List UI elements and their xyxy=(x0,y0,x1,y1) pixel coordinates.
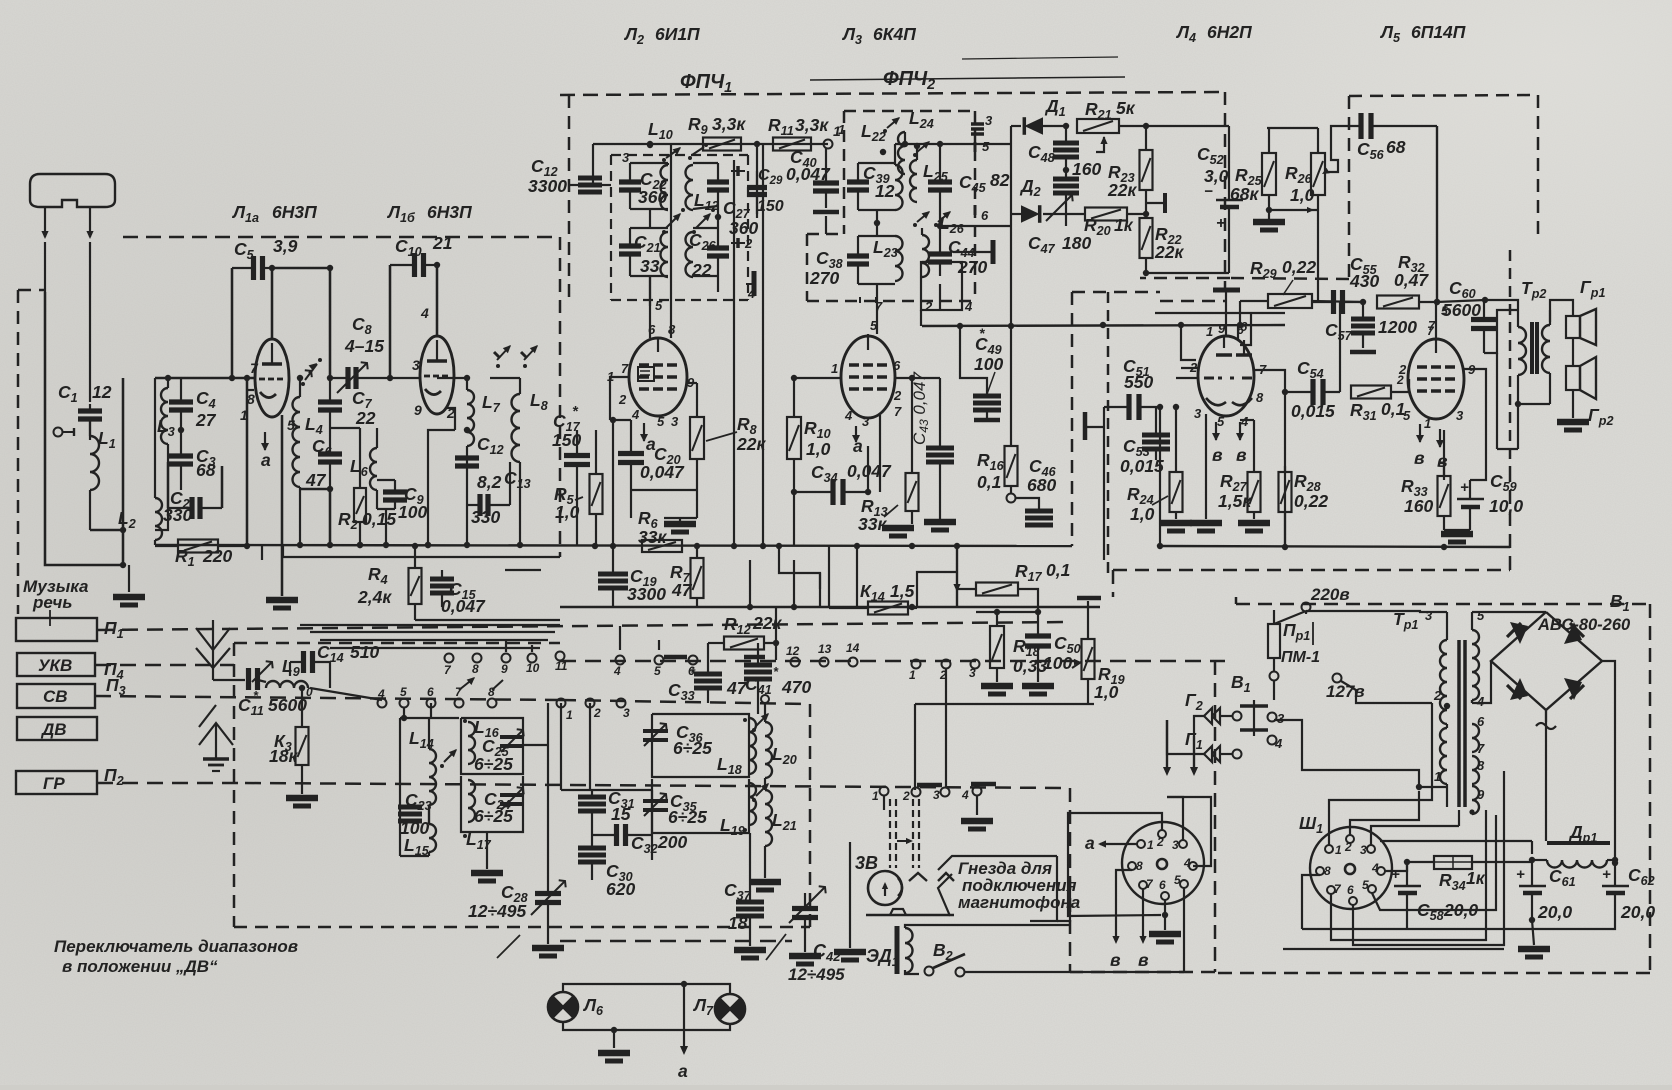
svg-text:4: 4 xyxy=(844,408,853,423)
wire plate Л1а up xyxy=(271,268,274,339)
svg-text:5: 5 xyxy=(655,298,663,313)
svg-text:620: 620 xyxy=(606,879,635,899)
svg-text:СВ: СВ xyxy=(43,687,68,706)
contact row 12-14 xyxy=(791,658,800,667)
svg-text:3: 3 xyxy=(1194,406,1202,421)
svg-text:6: 6 xyxy=(893,358,901,373)
wire Л3 pin7 down xyxy=(879,415,881,492)
wire row1 links xyxy=(430,703,432,718)
svg-text:270: 270 xyxy=(809,268,839,288)
wire Л4 grid2 xyxy=(1181,367,1198,369)
wire C22-C21 xyxy=(649,209,651,228)
svg-text:160: 160 xyxy=(1072,159,1101,179)
Тр1 secondary HV xyxy=(1472,630,1479,700)
svg-text:3300: 3300 xyxy=(627,584,666,604)
wire L7 bottom xyxy=(466,505,468,545)
wire 3В lamp drop xyxy=(849,842,851,948)
grid box Л2 xyxy=(638,367,654,381)
switch arrows L18 xyxy=(756,714,768,726)
svg-text:5: 5 xyxy=(982,139,990,154)
wire L20 top contact xyxy=(761,695,769,703)
trimmer core bar xyxy=(752,271,757,296)
wire lamp loop xyxy=(563,984,730,994)
wire R18 top xyxy=(976,611,1038,613)
wiper arrow R21 xyxy=(1096,137,1104,152)
svg-text:2: 2 xyxy=(593,706,601,720)
wire L3 bottom xyxy=(155,508,168,530)
bar contact4 ground xyxy=(971,782,996,787)
svg-text:3: 3 xyxy=(412,357,420,373)
wire ФПЧ2 out bottom xyxy=(920,310,922,326)
dashed box band switch xyxy=(234,642,560,645)
svg-text:а: а xyxy=(1085,833,1095,853)
contact row 1-3 right xyxy=(912,660,921,669)
antenna W1 xyxy=(30,174,115,207)
svg-text:2: 2 xyxy=(893,388,902,403)
svg-text:8: 8 xyxy=(247,391,255,407)
svg-text:4: 4 xyxy=(631,407,640,422)
svg-text:3: 3 xyxy=(985,113,993,128)
ground L17 xyxy=(486,832,488,869)
svg-text:0,047: 0,047 xyxy=(640,462,685,482)
bus wire y570 xyxy=(505,569,541,571)
dashed mech line П2 xyxy=(97,782,245,785)
svg-text:9: 9 xyxy=(1477,787,1485,802)
wire pin8 down arrow в xyxy=(1116,870,1132,940)
svg-text:а: а xyxy=(261,450,271,470)
svg-text:1: 1 xyxy=(566,708,573,722)
bus wire y607 xyxy=(560,606,1100,608)
cathode arrow a xyxy=(264,432,266,450)
svg-text:7: 7 xyxy=(1428,318,1436,333)
svg-text:2: 2 xyxy=(1433,688,1442,703)
wires into left socket xyxy=(1068,813,1162,916)
wire Л5 pin9 xyxy=(1464,369,1486,445)
wire Л3 pin6 xyxy=(895,377,912,379)
socket circle left xyxy=(1122,822,1204,904)
wire В2 right xyxy=(965,971,1184,973)
pentagrid Л2 xyxy=(629,338,687,416)
svg-text:3,3к: 3,3к xyxy=(712,114,746,134)
svg-text:+: + xyxy=(1602,866,1611,883)
svg-text:ГР: ГР xyxy=(43,774,65,793)
svg-text:82: 82 xyxy=(990,170,1010,190)
svg-text:12: 12 xyxy=(875,181,895,201)
svg-text:2: 2 xyxy=(744,236,753,251)
bridge diamond xyxy=(1491,612,1602,710)
svg-text:2: 2 xyxy=(1398,362,1407,377)
svg-text:6÷25: 6÷25 xyxy=(668,807,707,827)
svg-text:1,5: 1,5 xyxy=(890,581,915,601)
svg-text:2,4к: 2,4к xyxy=(357,587,392,607)
svg-text:3: 3 xyxy=(671,414,679,429)
svg-text:3: 3 xyxy=(1360,843,1367,857)
Л4 internals xyxy=(1216,353,1232,357)
wire pin7 down arrow в xyxy=(1142,889,1144,940)
socket circle Ш1 xyxy=(1310,827,1392,909)
tank box L14 xyxy=(399,718,401,856)
double triode Л4 xyxy=(1198,336,1254,416)
svg-text:6: 6 xyxy=(981,208,989,223)
wire audio bottom bus xyxy=(1160,546,1510,547)
svg-text:3В: 3В xyxy=(855,853,878,873)
wire L12-C26 xyxy=(717,206,719,228)
svg-text:4: 4 xyxy=(420,305,429,321)
svg-text:1200: 1200 xyxy=(1378,317,1417,337)
ground lamps xyxy=(613,1030,615,1048)
svg-text:6Н3П: 6Н3П xyxy=(272,202,317,222)
contact bars row xyxy=(664,655,687,660)
wire cathode Л1а xyxy=(281,415,284,596)
svg-text:УКВ: УКВ xyxy=(38,656,72,675)
wire B+ rail xyxy=(1380,840,1532,842)
bus wire y545 xyxy=(155,545,1072,546)
svg-text:C43 0,047: C43 0,047 xyxy=(910,372,931,445)
dashed box ФПЧ2 xyxy=(844,110,975,113)
svg-text:6÷25: 6÷25 xyxy=(673,738,712,758)
grid wire Л1б xyxy=(375,377,420,379)
svg-text:9: 9 xyxy=(414,402,422,418)
wire heater to Тр1 xyxy=(1471,700,1473,703)
svg-text:в: в xyxy=(1437,451,1448,471)
bridge diode 2 xyxy=(1564,622,1582,644)
wire C20 R8 bottom xyxy=(631,489,697,491)
svg-text:+: + xyxy=(1516,866,1525,883)
wire R25-R26 top xyxy=(1267,127,1318,129)
svg-text:−: − xyxy=(1204,183,1213,200)
svg-text:1: 1 xyxy=(240,407,248,423)
svg-text:22к: 22к xyxy=(1107,180,1137,200)
dashed mech line П1 xyxy=(97,622,1070,630)
svg-text:7: 7 xyxy=(250,360,259,376)
cathode arrow Л2 xyxy=(643,423,645,441)
wire Л3 top xyxy=(867,334,869,336)
contact row 1-3 mid xyxy=(557,699,566,708)
svg-text:4: 4 xyxy=(1183,856,1191,870)
svg-text:1: 1 xyxy=(1206,324,1213,339)
plug dashed lines xyxy=(889,799,891,868)
earth antenna symbol xyxy=(199,723,233,745)
FM antenna symbol xyxy=(212,620,214,680)
dashed verticals x1108 xyxy=(1107,292,1110,580)
wire Л4 grid left xyxy=(1176,377,1198,379)
svg-text:3: 3 xyxy=(862,414,870,429)
svg-text:13: 13 xyxy=(818,642,832,656)
wire Л4 pin7 out xyxy=(1254,370,1285,547)
svg-text:2: 2 xyxy=(924,299,933,314)
svg-text:2: 2 xyxy=(1344,840,1352,854)
wire C1-L1 loop xyxy=(90,529,123,532)
svg-text:в: в xyxy=(1414,448,1425,468)
dashed audio bottom xyxy=(1112,570,1115,597)
svg-text:4: 4 xyxy=(961,788,969,802)
svg-text:5: 5 xyxy=(1477,608,1485,623)
svg-text:160: 160 xyxy=(1404,496,1433,516)
wire pin6 ground xyxy=(1164,900,1166,930)
svg-text:4: 4 xyxy=(1240,414,1249,429)
svg-text:680: 680 xyxy=(1027,475,1056,495)
wire R29 left xyxy=(1239,301,1241,325)
coupling bar xyxy=(1163,193,1167,213)
svg-text:47: 47 xyxy=(305,470,327,490)
dashed box top line xyxy=(123,236,560,239)
wire ЭД1 top xyxy=(919,924,1070,926)
svg-text:а: а xyxy=(853,436,863,456)
svg-text:7: 7 xyxy=(1477,741,1485,756)
bus y325 xyxy=(922,325,1285,326)
svg-text:в: в xyxy=(1110,950,1121,970)
wire Л2 grid left xyxy=(610,377,629,420)
svg-text:1: 1 xyxy=(833,123,841,139)
svg-text:6: 6 xyxy=(427,685,434,699)
svg-text:4: 4 xyxy=(377,687,385,701)
svg-text:1: 1 xyxy=(872,789,879,803)
feedthrough bar x1085 xyxy=(1083,412,1088,440)
switch box УКВ xyxy=(17,653,95,676)
triode Л1а xyxy=(255,339,289,417)
ground under bus left xyxy=(261,546,263,560)
wire detector out xyxy=(1065,214,1067,226)
switch contact marks xyxy=(497,346,510,360)
svg-text:3,3к: 3,3к xyxy=(795,115,829,135)
contact row 4-8 left xyxy=(378,699,387,708)
wire 220 path xyxy=(1305,611,1307,614)
wire tap1 route xyxy=(1274,720,1419,787)
svg-text:Переключатель диапазонов: Переключатель диапазонов xyxy=(54,937,298,956)
svg-text:5к: 5к xyxy=(1116,98,1136,118)
node 1 C40 xyxy=(824,140,833,149)
svg-text:3: 3 xyxy=(933,788,940,802)
svg-text:5: 5 xyxy=(1403,408,1411,423)
svg-text:68: 68 xyxy=(1386,137,1406,157)
svg-text:7: 7 xyxy=(621,361,629,376)
switch box П1 xyxy=(16,618,97,641)
svg-text:5: 5 xyxy=(1362,878,1369,892)
wire middle verticals xyxy=(779,546,820,607)
triode Л1б xyxy=(420,336,454,414)
svg-text:27: 27 xyxy=(195,410,217,430)
svg-text:68: 68 xyxy=(196,460,216,480)
wire C56 right down xyxy=(1436,126,1438,302)
switch arrows top xyxy=(309,371,311,373)
dashed box top line 2 xyxy=(560,92,1225,95)
dashed mech line bottom xyxy=(560,940,792,943)
core marks ФПЧ2 top xyxy=(971,122,984,126)
svg-text:7: 7 xyxy=(875,299,883,314)
svg-text:7: 7 xyxy=(894,404,902,419)
svg-text:10,0: 10,0 xyxy=(1489,496,1523,516)
svg-text:22к: 22к xyxy=(752,613,782,633)
bridge AC marks xyxy=(1536,723,1556,729)
svg-text:0,1: 0,1 xyxy=(1046,560,1070,580)
svg-text:5: 5 xyxy=(1441,304,1448,318)
svg-text:1,0: 1,0 xyxy=(806,439,831,459)
wire grid bus Л1а xyxy=(155,377,254,380)
svg-text:5: 5 xyxy=(1174,873,1181,887)
switch box ДВ xyxy=(17,717,97,740)
wire filament bus xyxy=(1458,810,1460,826)
pentode Л5 xyxy=(1408,339,1464,419)
wire k14 connect xyxy=(819,573,821,589)
dashed mech line row2 xyxy=(560,660,1225,663)
wire L26-C44 bottom xyxy=(922,261,940,263)
svg-text:4: 4 xyxy=(1371,861,1379,875)
dashed box right of socket xyxy=(1214,661,1217,972)
ground under C1 column xyxy=(128,565,130,592)
svg-text:550: 550 xyxy=(1124,372,1153,392)
wire L4-C6 join xyxy=(300,489,330,545)
svg-text:5: 5 xyxy=(400,685,407,699)
svg-text:2: 2 xyxy=(902,789,910,803)
cathode arrows Л4 xyxy=(1215,422,1217,440)
wire antenna to dashed box xyxy=(45,292,123,565)
core marks ФПЧ2 mid xyxy=(974,205,977,215)
socket pins left xyxy=(1137,840,1145,848)
svg-text:4: 4 xyxy=(1274,736,1283,751)
svg-text:2: 2 xyxy=(1156,835,1164,849)
svg-text:5: 5 xyxy=(657,414,665,429)
svg-text:100: 100 xyxy=(398,502,427,522)
svg-text:1,0: 1,0 xyxy=(1130,504,1155,524)
svg-text:в положении „ДВ“: в положении „ДВ“ xyxy=(62,957,218,976)
svg-text:0,047: 0,047 xyxy=(441,596,486,616)
svg-text:9: 9 xyxy=(1218,321,1226,336)
bridge diode 3 xyxy=(1510,678,1528,700)
vertical wires mid xyxy=(733,160,735,546)
wire Г2 elbow xyxy=(1194,716,1204,736)
dashed box left edge ФПЧ1 xyxy=(568,95,571,300)
wire bundle to switch xyxy=(415,619,560,621)
dashed box Л5 left xyxy=(1348,96,1351,279)
contact row 1-4 bottom xyxy=(880,787,889,796)
wire antenna to C11 xyxy=(213,679,245,681)
wire pin5 down xyxy=(1183,888,1185,972)
wire plate Л1б xyxy=(436,265,439,336)
wire Тр1 HV to bridge xyxy=(1472,661,1491,703)
svg-text:22к: 22к xyxy=(1154,242,1184,262)
svg-text:АВС-80-260: АВС-80-260 xyxy=(1537,616,1631,634)
svg-text:100: 100 xyxy=(1043,653,1072,673)
svg-text:8: 8 xyxy=(1477,758,1485,773)
svg-text:4: 4 xyxy=(613,664,621,678)
wire C5 to C8 xyxy=(272,268,330,378)
svg-text:6Н3П: 6Н3П xyxy=(427,202,472,222)
plate bar Л4 xyxy=(1213,288,1240,293)
svg-text:200: 200 xyxy=(657,832,687,852)
wire mid tanks xyxy=(561,789,652,791)
switch arrows ФПЧ1 mid xyxy=(666,214,680,228)
contact switch marks row1 xyxy=(459,678,474,690)
wire C29 down xyxy=(756,144,758,218)
wires socket Ш1 xyxy=(1385,862,1407,871)
switch box СВ xyxy=(17,684,95,708)
svg-text:22к: 22к xyxy=(736,434,766,454)
wire Д1 vertical xyxy=(1010,126,1012,325)
bridge diode 1 xyxy=(1510,622,1528,644)
switch arrows ФПЧ2 xyxy=(917,142,929,152)
svg-text:18к: 18к xyxy=(269,746,298,766)
svg-text:10: 10 xyxy=(526,661,540,675)
wire K14 to bus xyxy=(856,546,858,608)
wire tanks right side xyxy=(523,744,548,746)
svg-text:4–15: 4–15 xyxy=(344,336,384,356)
zigzag wire C56 xyxy=(1325,126,1344,172)
svg-text:6П14П: 6П14П xyxy=(1411,22,1466,42)
svg-text:3: 3 xyxy=(1456,408,1464,423)
svg-text:8,2: 8,2 xyxy=(477,472,502,492)
dashed mech line П4 xyxy=(95,664,234,667)
svg-text:20,0: 20,0 xyxy=(1537,902,1572,922)
svg-text:6: 6 xyxy=(1347,883,1354,897)
node dots on bus xyxy=(297,542,303,548)
wire contact1 down xyxy=(883,796,885,810)
dashed box detector xyxy=(1071,292,1074,546)
bridge diode 4 xyxy=(1564,678,1582,700)
svg-text:в: в xyxy=(1212,445,1223,465)
dashed left border xyxy=(17,290,20,614)
dashed mech line П3 xyxy=(95,696,560,700)
wire R6 left xyxy=(612,420,614,546)
svg-text:100: 100 xyxy=(974,354,1003,374)
socket pins Ш1 xyxy=(1325,845,1333,853)
svg-text:8: 8 xyxy=(472,662,479,676)
svg-text:22: 22 xyxy=(355,408,376,428)
svg-text:180: 180 xyxy=(1062,233,1091,253)
svg-text:33: 33 xyxy=(640,256,660,276)
plug arrow xyxy=(897,840,911,842)
svg-text:220в: 220в xyxy=(1310,585,1350,604)
svg-text:0,015: 0,015 xyxy=(1120,456,1164,476)
wire C5 left xyxy=(231,268,234,378)
wire Л2 plate drops xyxy=(649,276,651,306)
wire audio out right xyxy=(1497,448,1518,450)
svg-text:8: 8 xyxy=(1136,859,1143,873)
svg-text:1: 1 xyxy=(1434,769,1441,784)
scan artifact line xyxy=(810,77,1125,80)
svg-text:1,0: 1,0 xyxy=(1094,682,1119,702)
svg-text:1: 1 xyxy=(1147,838,1154,852)
wire C39-L23 xyxy=(876,210,878,236)
wire L9 to contacts xyxy=(310,688,382,700)
svg-text:4: 4 xyxy=(964,299,973,314)
coil L8 xyxy=(512,394,521,462)
svg-text:9: 9 xyxy=(501,662,508,676)
svg-text:1к: 1к xyxy=(1114,215,1134,235)
svg-text:3: 3 xyxy=(969,666,976,680)
switch box ГР xyxy=(16,771,97,794)
svg-text:68к: 68к xyxy=(1230,184,1259,204)
Тр1 primary xyxy=(1440,640,1447,724)
wire pin8 xyxy=(247,389,254,391)
wire bridge plus down xyxy=(1545,710,1547,722)
svg-text:470: 470 xyxy=(781,677,811,697)
svg-text:6: 6 xyxy=(688,664,695,678)
contact row 7-11 xyxy=(445,654,454,663)
cathode R Л4 pin3 xyxy=(1205,414,1207,519)
svg-text:6÷25: 6÷25 xyxy=(474,806,513,826)
wire IF top row xyxy=(593,143,828,145)
svg-text:3300: 3300 xyxy=(528,176,567,196)
svg-text:3: 3 xyxy=(622,150,630,165)
svg-text:речь: речь xyxy=(32,593,72,612)
switch arrows ФПЧ1 top xyxy=(666,148,680,158)
svg-text:6: 6 xyxy=(1477,714,1485,729)
svg-text:ПМ-1: ПМ-1 xyxy=(1281,649,1320,666)
svg-text:6И1П: 6И1П xyxy=(655,24,700,44)
svg-text:15: 15 xyxy=(611,804,631,824)
svg-text:*: * xyxy=(979,325,985,341)
svg-text:8: 8 xyxy=(1256,390,1264,405)
